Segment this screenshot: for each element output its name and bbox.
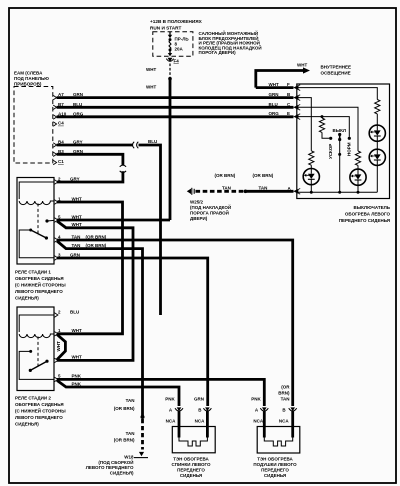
relay2 box: [17, 307, 54, 391]
svg-text:ДВЕРИ): ДВЕРИ): [190, 216, 208, 221]
svg-text:WHT: WHT: [146, 85, 156, 90]
svg-text:ОБОГРЕВА СИДЕНЬЯ: ОБОГРЕВА СИДЕНЬЯ: [15, 402, 64, 407]
svg-text:GRN: GRN: [70, 252, 80, 257]
relay1 pin labels: [58, 176, 107, 257]
svg-text:ТЭН ОБОГРЕВА: ТЭН ОБОГРЕВА: [257, 457, 293, 462]
wire LED2 down: [376, 165, 378, 193]
wire from pin F to right branch: [298, 88, 377, 100]
wire LED1 to LED2: [376, 141, 378, 150]
left heater text: [172, 457, 211, 479]
switch label: [339, 205, 391, 223]
svg-text:ВЫКЛЮЧАТЕЛЬ: ВЫКЛЮЧАТЕЛЬ: [354, 205, 391, 210]
TAN OR BRN labels bottom left: [114, 398, 135, 443]
svg-text:СИДЕНЬЯ): СИДЕНЬЯ): [110, 470, 134, 475]
svg-text:ОСВЕЩЕНИЕ: ОСВЕЩЕНИЕ: [321, 71, 351, 76]
junction dot on fuse wire: [168, 77, 172, 81]
wire TAN relay1 pin4 to right heater pin B: [57, 240, 293, 406]
EAM pin chevrons: [53, 95, 56, 164]
inline connector on vertical: [120, 165, 126, 172]
heater element right box: [257, 427, 300, 454]
wire GRY to relay1 pin2: [57, 171, 123, 182]
svg-text:(С НИЖНЕЙ СТОРОНЫ: (С НИЖНЕЙ СТОРОНЫ: [15, 281, 66, 288]
svg-text:(OR BRN): (OR BRN): [253, 173, 274, 178]
fuse block dashed box: [153, 32, 193, 56]
relay2 internals: [19, 315, 54, 379]
svg-text:WHT: WHT: [297, 63, 307, 68]
svg-text:ЛЕВОГО ПЕРЕДНЕГО: ЛЕВОГО ПЕРЕДНЕГО: [15, 289, 63, 294]
svg-text:СИДЕНЬЯ: СИДЕНЬЯ: [180, 473, 202, 478]
svg-text:TAN: TAN: [281, 397, 290, 402]
switch internals: [298, 88, 380, 193]
svg-text:NCA: NCA: [253, 419, 263, 424]
switch contact USKOR: [329, 137, 332, 140]
switch contact NORM: [348, 137, 351, 140]
relay1 pin chevrons: [55, 180, 58, 260]
wire WHT relay1 pin5 to fuse wire: [57, 219, 170, 222]
svg-text:ВНУТРЕННЕЕ: ВНУТРЕННЕЕ: [321, 64, 352, 69]
resistor R3 (middle branch): [355, 151, 360, 165]
resistor R2 (left branch): [309, 151, 314, 165]
svg-text:20A: 20A: [175, 47, 184, 52]
svg-text:(OR BRN): (OR BRN): [114, 406, 135, 411]
svg-text:(OR BRN): (OR BRN): [114, 438, 135, 443]
wire LED4 to bottom bus: [357, 185, 359, 193]
svg-text:ORG: ORG: [269, 111, 280, 116]
svg-text:BRN): BRN): [278, 391, 290, 396]
wire LED3 to bottom bus: [310, 184, 312, 192]
LED D2 diode symbol: [371, 150, 381, 165]
pin5 stub: [47, 219, 54, 222]
svg-text:W18: W18: [124, 455, 134, 460]
EAM label: [14, 71, 49, 87]
svg-text:PNK: PNK: [251, 397, 261, 402]
svg-text:ПОРОГА ПРАВОЙ: ПОРОГА ПРАВОЙ: [190, 209, 229, 216]
svg-text:СПИНКИ ЛЕВОГО: СПИНКИ ЛЕВОГО: [172, 462, 211, 467]
svg-text:W25/2: W25/2: [190, 200, 204, 205]
wire BLU row: [57, 106, 294, 109]
wire ORG row: [57, 115, 294, 118]
svg-text:+12В В ПОЛОЖЕНИЯХ: +12В В ПОЛОЖЕНИЯХ: [150, 19, 203, 24]
right heater element: [264, 438, 292, 447]
wire PNK relay2 lower to left heater pin A: [57, 380, 179, 406]
wire switch pole to bottom bus: [339, 140, 341, 192]
svg-text:ПЕРЕДНЕГО: ПЕРЕДНЕГО: [261, 468, 289, 473]
svg-text:F4: F4: [174, 59, 180, 64]
svg-text:TAN: TAN: [222, 186, 231, 191]
LED D1 circle: [369, 125, 385, 141]
svg-text:ПОД ПАНЕЛЬЮ: ПОД ПАНЕЛЬЮ: [14, 76, 49, 81]
W25/2 text: [190, 200, 231, 222]
svg-text:WHT: WHT: [72, 328, 82, 333]
svg-text:WHT: WHT: [72, 196, 82, 201]
svg-text:ПЕРЕДНЕГО СИДЕНЬЯ: ПЕРЕДНЕГО СИДЕНЬЯ: [339, 218, 390, 223]
ground wire TAN to W18: [141, 415, 145, 419]
svg-text:BLU: BLU: [269, 102, 278, 107]
relay1 armature pivot dot: [29, 229, 32, 232]
LED D4 circle: [350, 169, 366, 185]
wire WHT vertical (fuse to relay1 pin5): [169, 80, 172, 220]
wire GRY B4 row: [57, 144, 133, 147]
svg-text:C4: C4: [58, 121, 64, 126]
svg-text:ЕАМ (СЛЕВА: ЕАМ (СЛЕВА: [14, 71, 43, 76]
svg-text:РЕЛЕ СТАДИИ 2: РЕЛЕ СТАДИИ 2: [15, 396, 51, 401]
relay1 pin5 contact dot: [45, 219, 48, 222]
svg-text:NCA: NCA: [195, 419, 205, 424]
wire R2 to LED3: [310, 165, 312, 169]
wire WHT relay1 pin1 down to relay2 pin1: [57, 202, 123, 334]
fuse block label: [199, 29, 262, 55]
right heater pins: [260, 408, 296, 411]
relay1 box: [17, 178, 54, 265]
relay1 label: [15, 270, 66, 301]
inline connector on B4 row: [133, 142, 139, 148]
pin2 internal wire: [19, 182, 54, 199]
wire R4 to USKOR contact: [322, 132, 329, 138]
wire WHT to switch pin F: [256, 86, 294, 89]
relay1 pin4 contact dot: [45, 236, 48, 239]
armature: [31, 230, 47, 238]
wire WHT relay1 pin5 lower to relay2: [57, 221, 133, 360]
svg-text:GRN: GRN: [194, 397, 204, 402]
svg-text:ТЭН ОБОГРЕВА: ТЭН ОБОГРЕВА: [173, 457, 209, 462]
dashed actuator: [37, 204, 39, 237]
junction node bottom bus right: [357, 191, 360, 194]
svg-text:УСКОР: УСКОР: [328, 144, 333, 159]
svg-text:(OR BRN): (OR BRN): [86, 243, 107, 248]
wire GRN relay1 pin3 to left heater pin B: [57, 258, 208, 406]
svg-text:TAN: TAN: [126, 431, 135, 436]
relay2 label: [15, 396, 66, 427]
switch pole lower dot: [338, 138, 341, 141]
svg-text:TAN: TAN: [72, 234, 81, 239]
relay2 pin labels: [58, 309, 82, 386]
right heater text: [253, 457, 297, 479]
svg-text:РЕЛЕ СТАДИИ 1: РЕЛЕ СТАДИИ 1: [15, 270, 51, 275]
relay2 pin4 contact dot: [45, 360, 48, 363]
svg-text:ПЕРЕДНЕГО: ПЕРЕДНЕГО: [177, 468, 205, 473]
fuse feed text: [150, 19, 203, 31]
dashed connector gap on fuse wire: [169, 64, 171, 78]
svg-text:NCA: NCA: [166, 419, 176, 424]
svg-text:WHT: WHT: [72, 214, 82, 219]
wire from pin B to left branch: [298, 98, 311, 151]
LED D3 circle: [303, 169, 319, 185]
wire BLU continues to corner, down: [139, 145, 161, 315]
svg-text:NCA: NCA: [279, 419, 289, 424]
svg-text:СИДЕНЬЯ: СИДЕНЬЯ: [264, 473, 286, 478]
svg-text:TAN: TAN: [259, 186, 268, 191]
W18 ground symbol: [134, 452, 148, 458]
EAM pin labels: [58, 92, 84, 164]
relay2 pins 1-4 WHT bridge: [57, 335, 65, 360]
svg-text:(С НИЖНЕЙ СТОРОНЫ: (С НИЖНЕЙ СТОРОНЫ: [15, 407, 66, 414]
switch box: [297, 84, 390, 199]
svg-text:PNK: PNK: [165, 397, 175, 402]
svg-text:C1: C1: [58, 159, 64, 164]
svg-text:СИДЕНЬЯ): СИДЕНЬЯ): [15, 422, 39, 427]
wire GRN B3 row down to connector: [57, 154, 123, 165]
relay2 armature end dot: [29, 369, 32, 372]
LED D3 diode symbol: [305, 169, 315, 184]
junction node on pole wire: [338, 153, 341, 156]
svg-text:ОБОГРЕВА ЛЕВОГО: ОБОГРЕВА ЛЕВОГО: [345, 212, 391, 217]
svg-text:WHT: WHT: [72, 222, 82, 227]
relay2 armature pivot dot: [29, 350, 32, 353]
svg-text:(OR: (OR: [281, 385, 290, 390]
svg-text:PNK: PNK: [72, 374, 82, 379]
wire pin E tap to R4: [321, 117, 323, 118]
svg-text:(OR BRN): (OR BRN): [215, 173, 236, 178]
wire PNK relay2 pin5 to right heater pin A: [57, 379, 264, 406]
wire R3 to LED4: [357, 165, 359, 169]
TAN labels mid: [215, 173, 292, 191]
resistor R4 (dropping resistor to USKOR contact): [319, 118, 324, 132]
LED D1 diode symbol: [371, 126, 381, 141]
svg-text:СИДЕНЬЯ): СИДЕНЬЯ): [15, 296, 39, 301]
svg-text:ЛЕВОГО ПЕРЕДНЕГО: ЛЕВОГО ПЕРЕДНЕГО: [15, 415, 63, 420]
svg-text:НОРМ: НОРМ: [347, 142, 352, 156]
svg-text:GRY: GRY: [70, 176, 80, 181]
heater element left box: [172, 427, 215, 453]
interior lighting branch: [256, 71, 304, 88]
svg-text:(ПОД НАКЛАДКОЙ: (ПОД НАКЛАДКОЙ: [190, 203, 231, 210]
svg-text:ЛЕВОГО ПЕРЕДНЕГО: ЛЕВОГО ПЕРЕДНЕГО: [86, 465, 134, 470]
W18 text: [86, 455, 134, 476]
svg-text:BLU: BLU: [148, 139, 157, 144]
wire from pin C to middle branch: [298, 107, 358, 151]
common path to pin3: [19, 230, 54, 258]
svg-text:TAN: TAN: [126, 398, 135, 403]
svg-text:WHT: WHT: [146, 67, 156, 72]
svg-text:F: F: [287, 82, 290, 87]
relay2 pin chevrons: [55, 313, 58, 382]
switch pole upper dot: [338, 133, 341, 136]
switch pin arrows on left edge: [293, 85, 298, 193]
LED D2 circle: [369, 149, 385, 165]
LED D4 diode symbol: [352, 170, 362, 185]
svg-text:E: E: [287, 111, 290, 116]
svg-text:ВЫКЛ: ВЫКЛ: [333, 128, 347, 133]
svg-text:BLU: BLU: [70, 309, 79, 314]
svg-text:WHT: WHT: [56, 341, 61, 351]
svg-text:(ПОД СБОРКОЙ: (ПОД СБОРКОЙ: [98, 458, 133, 465]
bottom bus wire to pin A: [298, 191, 377, 193]
left heater element: [179, 438, 207, 447]
junction node on pin E wire: [321, 115, 324, 118]
coil: [19, 201, 54, 205]
junction node bottom bus left: [310, 191, 313, 194]
ground W25/2: [187, 188, 194, 195]
svg-text:(OR BRN): (OR BRN): [86, 234, 107, 239]
junction node bottom bus middle: [338, 191, 341, 194]
svg-text:WHT: WHT: [269, 82, 279, 87]
switch pole bar: [339, 135, 341, 140]
wire R1 to LED1: [376, 114, 378, 126]
svg-text:TAN: TAN: [72, 243, 81, 248]
wire from pin E to NORM contact: [298, 117, 349, 137]
wire TAN relay1 pin4 lower to ground W18: [57, 241, 143, 416]
left heater pins: [175, 408, 211, 411]
svg-text:ПОРОГА ДВЕРИ): ПОРОГА ДВЕРИ): [199, 50, 237, 55]
fuse F4 20A: [168, 32, 172, 57]
resistor R1 (right branch): [375, 100, 380, 114]
connector symbol below fuse, F4: [166, 58, 173, 62]
svg-text:GRN: GRN: [269, 92, 279, 97]
svg-text:ПРИБОРОВ): ПРИБОРОВ): [14, 82, 42, 87]
svg-text:ОБОГРЕВА СИДЕНЬЯ: ОБОГРЕВА СИДЕНЬЯ: [15, 276, 64, 281]
arrow to interior lighting: [303, 67, 310, 73]
relay1 internals: [19, 182, 54, 258]
right end labels: [269, 82, 292, 116]
svg-text:WHT: WHT: [72, 355, 82, 360]
wire GRN row: [57, 96, 294, 99]
svg-text:ПОДУШКИ ЛЕВОГО: ПОДУШКИ ЛЕВОГО: [253, 462, 297, 467]
EAM dashed box: [14, 87, 53, 164]
svg-text:RUN И START: RUN И START: [150, 26, 182, 31]
